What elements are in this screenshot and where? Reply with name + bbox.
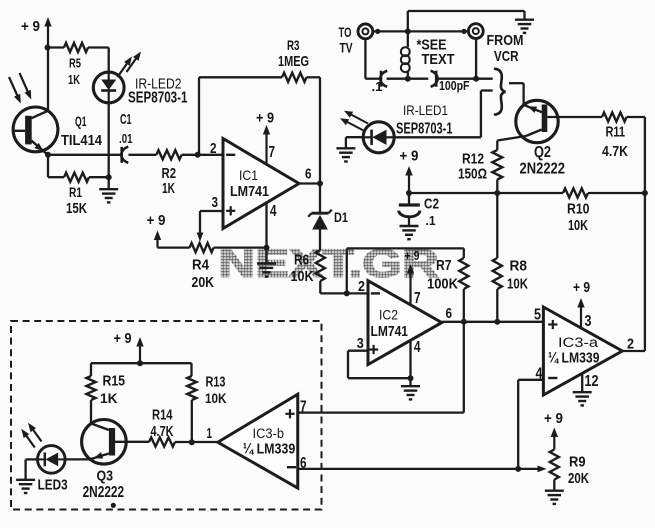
svg-text:3: 3 — [212, 195, 219, 211]
svg-text:C2: C2 — [424, 197, 439, 213]
svg-text:+ 9: + 9 — [573, 280, 590, 296]
svg-text:+ 9: + 9 — [400, 149, 419, 165]
svg-text:.1: .1 — [426, 213, 437, 228]
svg-text:.01: .01 — [119, 131, 133, 146]
svg-text:R4: R4 — [192, 258, 210, 274]
svg-text:R5: R5 — [69, 56, 81, 71]
svg-text:4: 4 — [414, 339, 421, 356]
svg-text:¼ LM339: ¼ LM339 — [548, 350, 600, 367]
svg-text:Q2: Q2 — [534, 144, 551, 161]
svg-text:1K: 1K — [100, 390, 118, 406]
svg-text:LM741: LM741 — [371, 324, 409, 340]
svg-text:2N2222: 2N2222 — [83, 484, 125, 501]
svg-text:20K: 20K — [568, 471, 589, 487]
svg-text:2N2222: 2N2222 — [520, 161, 566, 178]
svg-text:+ 9: + 9 — [114, 331, 132, 347]
svg-text:+ 9: + 9 — [147, 213, 166, 229]
svg-text:7: 7 — [300, 399, 307, 416]
svg-text:150Ω: 150Ω — [458, 167, 487, 183]
svg-text:.1: .1 — [372, 79, 384, 94]
svg-text:IC1: IC1 — [239, 167, 258, 183]
svg-text:R3: R3 — [287, 37, 300, 53]
svg-text:1K: 1K — [162, 181, 175, 197]
svg-text:R10: R10 — [567, 202, 590, 218]
svg-text:1: 1 — [207, 426, 213, 442]
svg-text:2: 2 — [210, 141, 217, 157]
svg-text:R6: R6 — [294, 253, 309, 269]
svg-text:VCR: VCR — [494, 49, 519, 65]
svg-text:4.7K: 4.7K — [151, 424, 174, 440]
svg-text:+ 9: + 9 — [21, 19, 40, 35]
svg-text:LED3: LED3 — [38, 477, 68, 493]
svg-text:10K: 10K — [291, 269, 314, 285]
svg-text:R1: R1 — [69, 184, 82, 200]
svg-text:+ 9: + 9 — [544, 411, 563, 427]
svg-text:FROM: FROM — [487, 33, 524, 49]
svg-text:TIL414: TIL414 — [61, 133, 103, 149]
svg-text:10K: 10K — [507, 277, 528, 293]
svg-text:TO: TO — [339, 24, 352, 40]
svg-text:12: 12 — [585, 373, 599, 390]
svg-text:1K: 1K — [68, 72, 80, 87]
svg-text:R8: R8 — [510, 259, 528, 275]
svg-text:1MEG: 1MEG — [278, 54, 309, 70]
svg-text:4.7K: 4.7K — [602, 144, 628, 160]
svg-text:D1: D1 — [334, 209, 348, 225]
svg-text:6: 6 — [446, 306, 453, 322]
svg-text:R9: R9 — [569, 455, 586, 471]
svg-text:100pF: 100pF — [439, 78, 470, 93]
svg-text:Q1: Q1 — [75, 113, 87, 129]
svg-text:6: 6 — [305, 167, 312, 183]
svg-text:Q3: Q3 — [97, 469, 114, 485]
svg-text:SEP8703-1: SEP8703-1 — [396, 121, 453, 138]
svg-text:7: 7 — [414, 290, 421, 307]
svg-text:TEXT: TEXT — [422, 52, 455, 68]
svg-text:15K: 15K — [66, 201, 87, 217]
svg-text:R14: R14 — [152, 407, 173, 423]
svg-text:R13: R13 — [206, 375, 226, 391]
svg-text:R2: R2 — [162, 166, 177, 182]
svg-text:20K: 20K — [192, 275, 215, 291]
svg-text:5: 5 — [534, 307, 541, 324]
svg-text:+ 9: + 9 — [256, 111, 274, 127]
svg-text:10K: 10K — [205, 390, 227, 406]
svg-text:LM741: LM741 — [230, 184, 269, 200]
svg-text:IR-LED1: IR-LED1 — [403, 103, 448, 119]
svg-text:¼ LM339: ¼ LM339 — [243, 441, 296, 458]
svg-text:IC2: IC2 — [379, 307, 398, 323]
svg-text:4: 4 — [270, 203, 277, 220]
svg-text:7: 7 — [269, 144, 276, 161]
svg-text:SEP8703-1: SEP8703-1 — [128, 90, 188, 107]
svg-text:R7: R7 — [436, 258, 452, 274]
svg-text:3: 3 — [585, 313, 592, 330]
svg-text:C1: C1 — [120, 112, 132, 128]
svg-text:2: 2 — [358, 279, 365, 295]
svg-text:TV: TV — [340, 40, 353, 56]
svg-text:R15: R15 — [103, 374, 126, 390]
svg-text:R11: R11 — [606, 125, 626, 141]
svg-text:10K: 10K — [568, 218, 588, 234]
svg-text:100K: 100K — [427, 277, 458, 293]
svg-text:+ 9: + 9 — [405, 248, 420, 263]
svg-text:R12: R12 — [462, 152, 484, 168]
